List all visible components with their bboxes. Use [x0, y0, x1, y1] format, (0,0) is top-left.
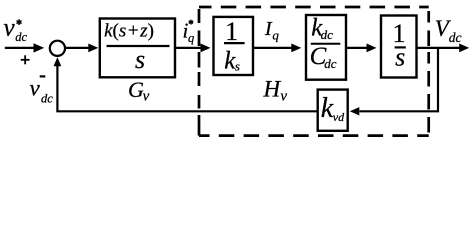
wire: kvd back to summing junction: [54, 57, 318, 111]
wire: 1/ks to kdc/Cdc block: [253, 44, 301, 53]
svg-text:q: q: [188, 31, 194, 45]
svg-text:dc: dc: [449, 30, 462, 45]
svg-text:s: s: [395, 43, 405, 72]
svg-text:s: s: [235, 58, 240, 73]
label Vdc (output): [435, 16, 462, 45]
svg-text:v: v: [4, 14, 16, 41]
svg-text:dc: dc: [324, 56, 337, 71]
wire: input reference into summing junction: [5, 43, 44, 52]
label v*_dc (reference input): [4, 14, 28, 43]
svg-text:dc: dc: [321, 27, 334, 42]
wire: feedback branch from output down to kvd: [350, 48, 438, 116]
dashed box Hv (bottom edge): [199, 134, 429, 137]
label Gv: [128, 77, 150, 105]
label i*_q: [183, 19, 195, 45]
svg-text:q: q: [272, 28, 279, 43]
svg-text:v: v: [30, 76, 41, 101]
svg-text:s: s: [135, 45, 145, 74]
label v_dc (feedback signal): [30, 76, 54, 106]
svg-text:vd: vd: [333, 110, 345, 124]
wire: output Vdc: [417, 44, 470, 53]
asterisk of i*_q: [189, 20, 194, 25]
label Iq: [264, 18, 280, 43]
svg-text:dc: dc: [15, 30, 27, 44]
summing junction: [50, 41, 65, 56]
label Hv: [263, 77, 288, 105]
wire: Gv block to 1/ks block: [176, 44, 211, 53]
svg-text:v: v: [280, 88, 287, 104]
svg-text:1: 1: [225, 17, 238, 46]
block 1/s: [381, 16, 417, 78]
minus sign at summing junction: [40, 75, 46, 77]
block kvd: [318, 90, 348, 131]
dashed box Hv (right edge): [427, 11, 430, 133]
block kdc/Cdc: [306, 14, 346, 79]
svg-text:G: G: [128, 77, 144, 102]
svg-text:v: v: [143, 88, 150, 104]
wire: kdc/Cdc to 1/s block: [346, 44, 377, 53]
block 1/ks: [214, 17, 254, 75]
svg-text:dc: dc: [41, 91, 53, 105]
asterisk of v*_dc: [17, 19, 22, 25]
svg-text:k(s + z): k(s + z): [104, 21, 154, 42]
block Gv transfer function k(s+z)/s: [100, 19, 175, 78]
wire: summing junction to Gv block: [65, 44, 98, 53]
plus sign at summing junction: [21, 55, 30, 64]
dashed box Hv (top edge): [199, 6, 429, 9]
dashed box Hv (left edge): [198, 9, 201, 136]
svg-text:H: H: [263, 77, 282, 102]
